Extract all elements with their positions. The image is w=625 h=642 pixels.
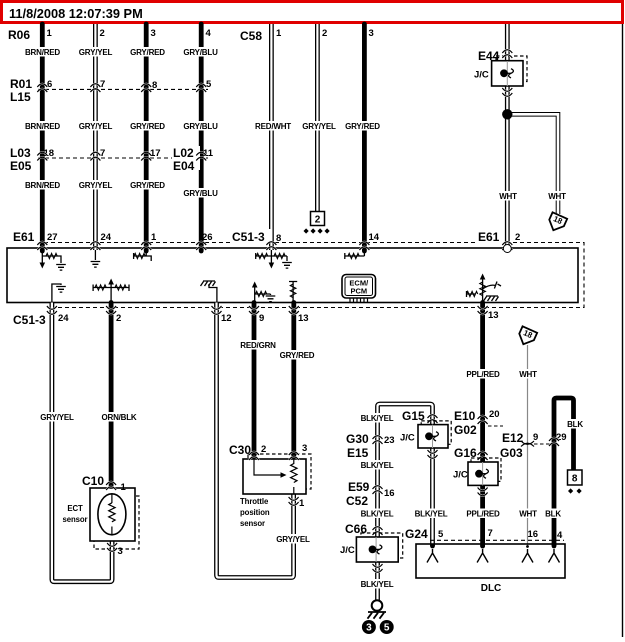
svg-text:4: 4 <box>206 28 212 39</box>
wire C51-3-9 RED/GRN (solid) to C30 pin 2 <box>252 303 257 461</box>
svg-text:RED/WHT: RED/WHT <box>255 122 291 131</box>
svg-text:13: 13 <box>298 313 309 324</box>
wire C58-3 GRY/RED (solid) <box>362 24 367 251</box>
break at C30 pin 3 <box>289 452 299 460</box>
svg-text:G02: G02 <box>454 423 477 437</box>
svg-text:C66: C66 <box>345 522 367 536</box>
svg-text:2: 2 <box>116 313 121 324</box>
svg-text:GRY/YEL: GRY/YEL <box>79 181 113 190</box>
svg-text:7: 7 <box>100 79 105 90</box>
svg-text:5: 5 <box>384 623 390 634</box>
svg-text:BLK/YEL: BLK/YEL <box>415 510 448 519</box>
wire colour labels row 1 <box>25 47 61 57</box>
svg-text:GRY/YEL: GRY/YEL <box>40 413 74 422</box>
svg-text:GRY/RED: GRY/RED <box>345 122 380 131</box>
wire C51-3-12 (hollow) U to C30 pin 1 <box>217 303 294 578</box>
ground bolt circle <box>372 600 383 611</box>
svg-text:2: 2 <box>515 232 520 243</box>
ECM internal: C51-3 pin 2 stub, arrow up, dual resistors <box>93 284 129 303</box>
svg-text:C58: C58 <box>240 29 262 43</box>
BLK/YEL label G15 leg <box>413 509 449 519</box>
component C10 ECT sensor <box>94 496 139 549</box>
ECM internal: E61-2 entry circle <box>503 245 511 253</box>
svg-text:2: 2 <box>100 28 105 39</box>
svg-text:J/C: J/C <box>474 70 489 81</box>
wire E44 feed WHT (hollow) from top <box>505 24 510 61</box>
break below E44 <box>502 88 512 96</box>
svg-text:7: 7 <box>100 148 105 159</box>
off-page pentagon 18 (from E44 sheet) <box>516 326 537 347</box>
break wire4 at L02 <box>196 152 206 160</box>
svg-text:E12: E12 <box>502 431 524 445</box>
svg-text:E15: E15 <box>347 446 369 460</box>
ECM internal: C51-3 pin 24 stub to ground <box>52 284 61 303</box>
wire C58-1 RED/WHT (hollow) <box>269 24 274 250</box>
svg-text:11/8/2008 12:07:39 PM: 11/8/2008 12:07:39 PM <box>9 6 143 21</box>
svg-text:6: 6 <box>47 79 52 90</box>
svg-text:8: 8 <box>572 474 578 485</box>
connector E61 dashed outline top <box>44 243 584 308</box>
svg-text:12: 12 <box>221 313 232 324</box>
svg-text:BLK/YEL: BLK/YEL <box>361 510 394 519</box>
PPL/RED labels <box>465 369 501 379</box>
break below box on wire 13 right <box>478 306 488 314</box>
break below box on wire 24 <box>47 306 57 314</box>
wire R06-4 GRY/BLU (solid) <box>199 24 204 251</box>
svg-text:PCM: PCM <box>350 287 367 296</box>
junction dot <box>502 109 512 119</box>
svg-text:7: 7 <box>488 528 493 539</box>
wire WHT thin from off-page 18 to DLC pin 16 <box>527 345 529 546</box>
svg-text:29: 29 <box>556 432 567 443</box>
DLC terminal pin 7 <box>477 549 488 563</box>
svg-text:GRY/RED: GRY/RED <box>130 122 165 131</box>
break below box on wire 12 <box>212 306 222 314</box>
svg-text:1: 1 <box>299 498 305 509</box>
ECM/PCM module box <box>7 248 578 303</box>
wire colour labels row 2 <box>25 121 61 131</box>
connector C51-3 row labels (top) <box>231 229 271 243</box>
svg-text:sensor: sensor <box>240 519 265 528</box>
svg-text:C30: C30 <box>229 443 251 457</box>
break below box on wire 2 <box>106 306 116 314</box>
ground ref bolt 3 <box>362 620 376 634</box>
wire C51-3-2 ORN/BLK (solid) to C10 pin 1 <box>109 303 114 488</box>
DLC component box <box>416 544 565 578</box>
wire BLK/YEL ground bus bridge (hollow) <box>378 404 433 600</box>
break wire1 at R01 <box>37 84 47 92</box>
svg-text:3: 3 <box>118 546 123 557</box>
svg-text:R06: R06 <box>8 28 30 42</box>
svg-text:BLK/YEL: BLK/YEL <box>361 414 394 423</box>
svg-text:1: 1 <box>151 232 157 243</box>
svg-text:BRN/RED: BRN/RED <box>25 48 60 57</box>
break at C10 pin 1 <box>106 482 116 490</box>
wire BLK (solid) DLC pin 4 to off-page 8 <box>554 398 574 546</box>
svg-text:2: 2 <box>315 215 321 226</box>
break WHT at E12-9 <box>521 441 534 447</box>
svg-text:L03: L03 <box>10 146 31 160</box>
break wire4 at R01 <box>196 84 206 92</box>
off-page reference box 8 <box>568 470 583 485</box>
svg-text:3: 3 <box>366 623 372 634</box>
ECM internal: pin 13 driver (arrow, resistors, ground) <box>467 279 483 303</box>
wire R06-1 BRN/RED (solid) <box>40 24 45 251</box>
svg-text:3: 3 <box>369 28 374 39</box>
header datestamp box <box>2 2 623 23</box>
svg-text:C51-3: C51-3 <box>13 313 46 327</box>
break E61-2 <box>502 242 512 250</box>
svg-text:27: 27 <box>47 232 58 243</box>
off-page pentagon 18 (to DLC sheet) <box>546 212 567 233</box>
svg-text:23: 23 <box>384 435 395 446</box>
svg-text:RED/GRN: RED/GRN <box>240 341 276 350</box>
BLK labels <box>563 419 587 429</box>
svg-text:5: 5 <box>206 79 212 90</box>
WHT label main <box>496 191 520 201</box>
svg-text:GRY/YEL: GRY/YEL <box>79 122 113 131</box>
svg-text:24: 24 <box>58 313 69 324</box>
svg-text:BLK: BLK <box>545 510 561 519</box>
svg-text:20: 20 <box>489 409 500 420</box>
svg-text:GRY/RED: GRY/RED <box>130 48 165 57</box>
svg-text:GRY/YEL: GRY/YEL <box>302 122 336 131</box>
svg-text:GRY/BLU: GRY/BLU <box>183 48 218 57</box>
svg-text:BRN/RED: BRN/RED <box>25 181 60 190</box>
svg-text:WHT: WHT <box>548 192 566 201</box>
svg-text:Throttle: Throttle <box>240 497 269 506</box>
svg-text:16: 16 <box>528 529 539 540</box>
break at C30 pin 2 <box>249 452 259 460</box>
svg-text:3: 3 <box>151 28 156 39</box>
wire C58-2 GRY/YEL (hollow) to box 2 <box>315 24 320 212</box>
svg-text:BLK: BLK <box>567 420 583 429</box>
svg-text:ECT: ECT <box>67 504 83 513</box>
svg-text:E61: E61 <box>478 230 500 244</box>
svg-text:GRY/RED: GRY/RED <box>280 351 315 360</box>
svg-text:E05: E05 <box>10 159 32 173</box>
connector E61 row labels (top of ECM) <box>12 229 38 243</box>
ground ref bolt 5 <box>380 620 394 634</box>
wire colour labels lower <box>39 412 75 422</box>
ECM internal: pin 1 resistor stub <box>134 250 152 261</box>
break at C10 pin 3 <box>107 543 117 551</box>
svg-text:DLC: DLC <box>481 583 502 594</box>
svg-text:C51-3: C51-3 <box>232 230 265 244</box>
svg-text:BLK/YEL: BLK/YEL <box>361 580 394 589</box>
svg-text:1: 1 <box>47 28 53 39</box>
wire C51-3-13 GRY/RED (solid) to C30 pin 3 <box>291 303 296 461</box>
svg-text:E04: E04 <box>173 159 195 173</box>
break BLK at G03-29 <box>549 438 559 446</box>
DLC terminal pin 16 <box>522 549 533 563</box>
component C30 throttle position sensor <box>248 454 311 489</box>
svg-text:J/C: J/C <box>400 433 415 444</box>
break wire2 at L03 <box>90 152 100 160</box>
wire R06-3 GRY/RED (solid) <box>144 24 149 251</box>
WHT labels <box>516 369 540 379</box>
svg-text:L02: L02 <box>173 146 194 160</box>
svg-text:G30: G30 <box>346 432 369 446</box>
svg-text:E10: E10 <box>454 409 476 423</box>
wire branch WHT to off-page 18 (hollow thin) <box>507 114 558 214</box>
connector L03/E05 dashed row <box>38 157 208 159</box>
off-page arrows under box 2 <box>304 228 330 233</box>
svg-text:5: 5 <box>438 529 444 540</box>
DLC terminal pin 4 <box>549 549 560 563</box>
svg-text:WHT: WHT <box>499 192 517 201</box>
ECM internal: pin 14 resistor stub <box>345 250 365 259</box>
svg-text:BLK/YEL: BLK/YEL <box>361 461 394 470</box>
svg-text:sensor: sensor <box>63 515 88 524</box>
svg-text:L15: L15 <box>10 90 31 104</box>
svg-text:PPL/RED: PPL/RED <box>466 370 500 379</box>
ECM internal: pin 8 stub, dual resistors, arrow, ground <box>256 250 287 263</box>
svg-text:GRY/YEL: GRY/YEL <box>79 48 113 57</box>
wire E44 to E61-2 WHT (hollow) <box>505 86 510 250</box>
svg-text:R01: R01 <box>10 77 32 91</box>
break above E44 <box>502 50 512 58</box>
svg-text:1: 1 <box>276 28 282 39</box>
break wire1 at E61 <box>37 242 47 250</box>
svg-text:24: 24 <box>101 232 112 243</box>
wire ECM-13 PPL/RED (solid) to DLC pin 7 <box>480 303 485 547</box>
break C58-3 at C51-3 <box>359 242 369 250</box>
svg-text:13: 13 <box>488 310 499 321</box>
break wire3 at L03 <box>141 152 151 160</box>
ECM internal: pin 27 stub with arrow, resistor to ground <box>41 250 43 263</box>
BLK/YEL labels left chain <box>359 413 395 423</box>
svg-text:GRY/YEL: GRY/YEL <box>276 535 310 544</box>
svg-text:J/C: J/C <box>453 470 468 481</box>
svg-text:8: 8 <box>276 233 281 244</box>
break wire4 at E61 <box>196 242 206 250</box>
svg-text:9: 9 <box>259 313 264 324</box>
svg-text:G24: G24 <box>405 527 428 541</box>
break C58-1 at C51-3 <box>266 242 276 250</box>
connector R01/L15 dashed row <box>38 88 208 90</box>
GRY/YEL label on C30 pin1 wire <box>275 534 311 544</box>
svg-text:1: 1 <box>121 482 127 493</box>
DLC wire tips <box>430 544 435 549</box>
svg-text:4: 4 <box>557 530 563 541</box>
break below box on wire 9 <box>249 306 259 314</box>
svg-text:ORN/BLK: ORN/BLK <box>101 413 136 422</box>
svg-text:GRY/RED: GRY/RED <box>130 181 165 190</box>
svg-text:G03: G03 <box>500 446 523 460</box>
break wire1 at L03 <box>37 152 47 160</box>
ECM/PCM icon <box>342 275 376 299</box>
ECM internal: C51-3 pin 13 resistor stub <box>289 282 297 303</box>
svg-text:GRY/BLU: GRY/BLU <box>183 189 218 198</box>
ECM internal: pin 24 stub to ground <box>94 250 96 260</box>
off-page reference box 2 <box>311 212 325 226</box>
svg-text:16: 16 <box>384 488 395 499</box>
svg-text:2: 2 <box>322 28 327 39</box>
ECM internal: C51-3 pin 9 stub arrow, resistor to ground <box>255 287 271 303</box>
svg-text:BRN/RED: BRN/RED <box>25 122 60 131</box>
svg-text:14: 14 <box>369 232 380 243</box>
break wire3 at R01 <box>141 84 151 92</box>
svg-text:position: position <box>240 508 270 517</box>
break at C30 pin 1 <box>289 497 299 505</box>
ECM internal: C51-3 pin 12 stub to chassis ground <box>209 284 217 303</box>
break wire2 at E61 <box>90 242 100 250</box>
break wire2 at R01 <box>90 84 100 92</box>
svg-text:GRY/BLU: GRY/BLU <box>183 122 218 131</box>
chassis ground under bolt <box>368 612 387 619</box>
WHT label branch <box>545 191 569 201</box>
svg-text:E61: E61 <box>13 230 35 244</box>
svg-text:2: 2 <box>261 444 266 455</box>
svg-text:WHT: WHT <box>519 370 537 379</box>
border frame right <box>622 23 624 637</box>
DLC terminal pin 5 <box>427 549 438 563</box>
svg-text:C10: C10 <box>82 474 104 488</box>
svg-text:8: 8 <box>152 80 157 91</box>
svg-text:17: 17 <box>150 148 161 159</box>
svg-text:WHT: WHT <box>519 510 537 519</box>
off-page arrows under box 8 <box>568 488 582 493</box>
wire R06-2 GRY/YEL (hollow) <box>93 24 98 250</box>
svg-text:PPL/RED: PPL/RED <box>466 510 500 519</box>
break wire3 at E61 <box>141 242 151 250</box>
wire colour labels row 3 <box>25 180 61 190</box>
connector E61 pin 2 labels <box>477 229 503 243</box>
wire C51-3-24 GRY/YEL (hollow) U to C10 pin 3 <box>52 303 112 582</box>
break below box on wire 13 <box>289 306 299 314</box>
svg-text:3: 3 <box>302 443 307 454</box>
svg-text:J/C: J/C <box>340 545 355 556</box>
svg-text:C52: C52 <box>346 494 368 508</box>
svg-text:E59: E59 <box>348 480 370 494</box>
